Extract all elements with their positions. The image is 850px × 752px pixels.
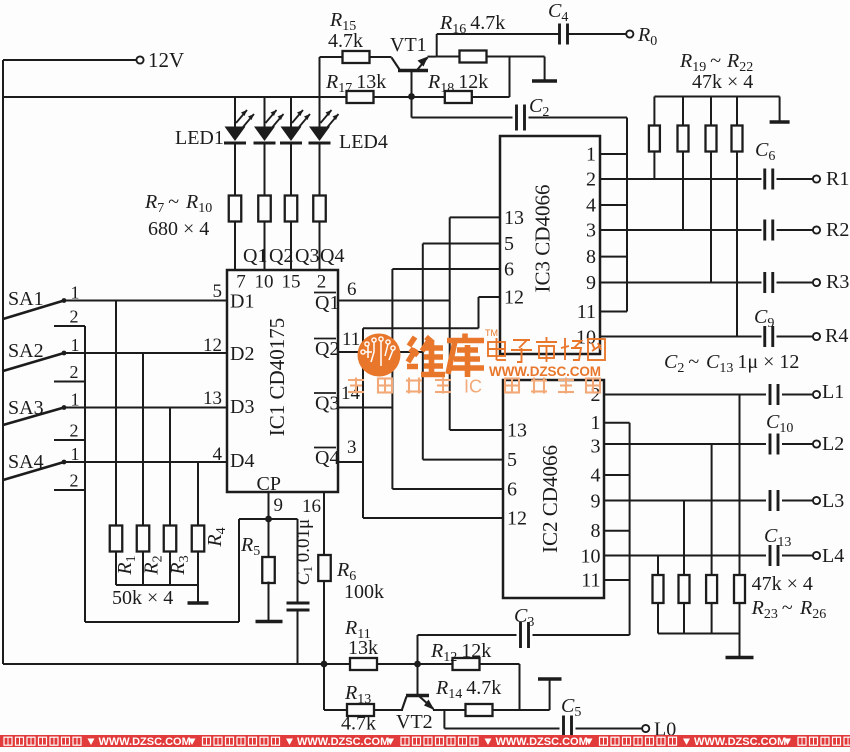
svg-text:TM: TM	[485, 328, 498, 338]
svg-text:WWW.DZSC.COM: WWW.DZSC.COM	[496, 736, 588, 747]
svg-text:D1: D1	[230, 291, 254, 313]
svg-text:R17 13k: R17 13k	[325, 71, 386, 96]
svg-text:L3: L3	[822, 490, 844, 512]
svg-text:L1: L1	[822, 381, 844, 403]
svg-text:R2: R2	[826, 219, 849, 241]
svg-text:12V: 12V	[148, 48, 184, 72]
svg-text:11: 11	[342, 329, 360, 350]
svg-text:Q2: Q2	[269, 245, 293, 267]
svg-text:WWW.DZSC.COM: WWW.DZSC.COM	[489, 364, 601, 379]
svg-text:R14 4.7k: R14 4.7k	[435, 677, 501, 702]
svg-text:8: 8	[591, 520, 601, 542]
svg-text:R12 12k: R12 12k	[430, 640, 491, 665]
svg-text:IC: IC	[464, 377, 482, 397]
svg-text:2: 2	[586, 169, 596, 191]
svg-text:LED4: LED4	[339, 131, 388, 153]
svg-text:VT1: VT1	[390, 34, 427, 56]
svg-text:13k: 13k	[348, 637, 378, 659]
svg-text:8: 8	[586, 246, 596, 268]
svg-text:16: 16	[302, 496, 321, 517]
svg-text:Q1: Q1	[243, 245, 267, 267]
svg-text:11: 11	[581, 570, 600, 592]
svg-text:Q3: Q3	[315, 393, 339, 415]
svg-text:L2: L2	[822, 433, 844, 455]
svg-text:47k × 4: 47k × 4	[692, 71, 753, 93]
svg-text:4: 4	[586, 195, 596, 217]
svg-text:WWW.DZSC.COM: WWW.DZSC.COM	[694, 736, 786, 747]
svg-text:12: 12	[504, 287, 524, 309]
svg-text:WWW.DZSC.COM: WWW.DZSC.COM	[297, 736, 389, 747]
svg-text:4.7k: 4.7k	[341, 713, 376, 735]
svg-text:3: 3	[591, 436, 601, 458]
svg-text:13: 13	[504, 207, 524, 229]
svg-text:13: 13	[203, 388, 222, 409]
svg-text:D4: D4	[230, 450, 254, 472]
svg-text:5: 5	[507, 449, 517, 471]
svg-text:7: 7	[236, 272, 246, 293]
svg-text:Q3: Q3	[295, 245, 319, 267]
svg-text:6: 6	[347, 279, 357, 300]
svg-text:VT2: VT2	[396, 711, 433, 733]
svg-text:100k: 100k	[344, 581, 384, 603]
svg-text:3: 3	[347, 437, 357, 458]
svg-text:1: 1	[586, 144, 596, 166]
svg-text:2: 2	[70, 362, 79, 382]
svg-text:IC1 CD40175: IC1 CD40175	[265, 318, 289, 436]
svg-text:9: 9	[591, 491, 601, 513]
svg-text:SA1: SA1	[8, 288, 44, 310]
svg-text:C1 0.01μ: C1 0.01μ	[293, 519, 315, 585]
svg-text:D2: D2	[230, 343, 254, 365]
svg-text:R16 4.7k: R16 4.7k	[439, 12, 505, 37]
svg-text:5: 5	[504, 233, 514, 255]
svg-text:Q1: Q1	[315, 292, 339, 314]
svg-text:Q2: Q2	[315, 338, 339, 360]
svg-text:9: 9	[586, 272, 596, 294]
svg-text:R4: R4	[825, 325, 848, 347]
svg-text:IC2 CD4066: IC2 CD4066	[538, 445, 562, 553]
svg-text:50k × 4: 50k × 4	[112, 587, 173, 609]
svg-text:R18 12k: R18 12k	[427, 71, 488, 96]
svg-text:4: 4	[591, 465, 601, 487]
svg-text:2: 2	[70, 471, 79, 491]
svg-text:9: 9	[274, 495, 284, 516]
svg-text:6: 6	[504, 259, 514, 281]
svg-text:6: 6	[507, 479, 517, 501]
svg-text:10: 10	[255, 272, 274, 293]
svg-text:CP: CP	[257, 473, 281, 495]
svg-text:L4: L4	[822, 545, 844, 567]
svg-text:D3: D3	[230, 396, 254, 418]
svg-text:5: 5	[213, 281, 223, 302]
svg-text:Q4: Q4	[315, 447, 339, 469]
svg-text:47k × 4: 47k × 4	[752, 573, 813, 595]
svg-text:Q4: Q4	[320, 245, 344, 267]
svg-text:12: 12	[507, 508, 527, 530]
svg-text:2: 2	[70, 421, 79, 441]
svg-text:680 × 4: 680 × 4	[148, 218, 209, 240]
svg-text:IC3 CD4066: IC3 CD4066	[531, 185, 555, 293]
svg-text:SA2: SA2	[8, 340, 44, 362]
svg-text:10: 10	[581, 546, 601, 568]
svg-text:2: 2	[317, 272, 327, 293]
svg-text:3: 3	[586, 220, 596, 242]
svg-text:1: 1	[591, 412, 601, 434]
svg-text:LED1: LED1	[175, 127, 224, 149]
svg-text:2: 2	[70, 307, 79, 327]
svg-text:13: 13	[507, 420, 527, 442]
svg-text:WWW.DZSC.COM: WWW.DZSC.COM	[99, 736, 191, 747]
svg-text:R3: R3	[826, 271, 849, 293]
svg-text:15: 15	[282, 272, 301, 293]
svg-text:11: 11	[577, 301, 596, 323]
svg-text:4.7k: 4.7k	[328, 30, 363, 52]
svg-text:R1: R1	[826, 168, 849, 190]
